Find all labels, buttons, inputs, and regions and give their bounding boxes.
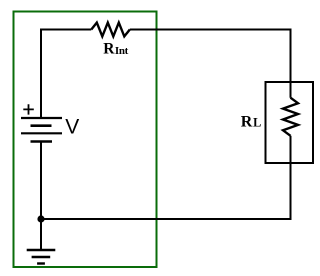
ground symbol: top bar xyxy=(27,249,56,251)
svg-text:RL: RL xyxy=(241,113,262,130)
battery V: short plate 2 xyxy=(31,124,52,127)
ground symbol: bottom bar xyxy=(37,262,45,264)
load box around R_L xyxy=(266,82,314,163)
battery V: positive long plate xyxy=(21,117,62,119)
wire: battery positive terminal up to top rail and right to R_Int left lead xyxy=(41,30,91,119)
node junction dot (bottom rail meets ground branch) xyxy=(37,215,44,222)
resistor R_Int (zigzag) xyxy=(91,23,130,37)
wire: R_Int right lead to R_L top lead xyxy=(130,30,291,98)
battery polarity plus sign xyxy=(23,104,34,114)
svg-text:V: V xyxy=(65,116,79,139)
battery V: long plate 3 xyxy=(21,132,62,134)
wire: battery negative terminal down to ground xyxy=(40,142,42,251)
resistor R_L (vertical zigzag) xyxy=(283,98,298,136)
svg-text:RInt: RInt xyxy=(103,41,128,58)
Thevenin equivalent source boundary box (green) xyxy=(14,12,157,268)
ground symbol: middle bar xyxy=(32,256,51,258)
wire: R_L bottom lead down and left along bottom rail to node xyxy=(41,136,291,219)
battery V: short plate 4 (negative) xyxy=(31,140,53,143)
